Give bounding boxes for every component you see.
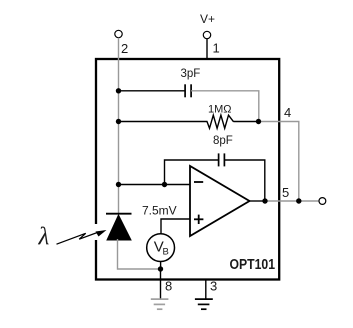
svg-text:7.5mV: 7.5mV [142, 204, 177, 218]
svg-text:1: 1 [213, 41, 220, 56]
svg-text:3pF: 3pF [181, 68, 201, 80]
terminal pin 5 output [319, 198, 326, 205]
svg-text:1MΩ: 1MΩ [208, 104, 232, 116]
svg-text:B: B [163, 247, 169, 258]
voltage source VB [147, 234, 175, 262]
node junction 1MΩ/3pF right [256, 119, 261, 124]
wire inverting input row [119, 184, 191, 186]
svg-text:OPT101: OPT101 [230, 257, 276, 273]
wire 8pF to output [224, 160, 264, 201]
wire pin 8 lead [160, 269, 162, 299]
resistor R1 1MΩ [207, 115, 234, 128]
ground pin 3 [195, 299, 213, 309]
wire pin 3 lead [205, 280, 207, 299]
op-amp A1 [190, 166, 250, 236]
wire 1MΩ to junction [234, 121, 259, 123]
svg-text:4: 4 [284, 105, 291, 120]
node junction 3pF/pin2 [116, 88, 121, 93]
svg-text:λ: λ [38, 224, 50, 251]
wire pin 1 lead [206, 39, 208, 60]
wire op-amp output [250, 200, 266, 202]
wire noninverting input [161, 219, 190, 233]
wire photodiode bottom (gray) [118, 239, 161, 269]
wire pin 4 lead (gray) [259, 122, 299, 202]
svg-text:2: 2 [121, 41, 128, 56]
svg-text:3: 3 [210, 279, 217, 294]
node junction inverting input [116, 182, 121, 187]
node junction 8pF stub [162, 182, 167, 187]
terminal pin 1 [203, 31, 210, 38]
wire 1MΩ row left [119, 121, 208, 123]
node junction 1MΩ/pin2 [116, 119, 121, 124]
gap in outline where light arrow crosses [94, 224, 99, 240]
ground pin 8 (gray) [151, 299, 169, 309]
IC outline OPT101 [96, 59, 279, 280]
svg-text:8: 8 [165, 279, 172, 294]
node junction pin4/pin5 [296, 198, 301, 203]
node junction output/feedback [262, 198, 267, 203]
wire pin 2 lead (gray, down to photodiode) [118, 38, 120, 213]
wire 8pF stub [165, 160, 219, 185]
capacitor C2 8pF [219, 153, 225, 166]
terminal pin 2 [115, 30, 122, 37]
light arrow [57, 230, 107, 244]
photodiode D1 [106, 214, 132, 240]
wire VB bottom stub [160, 262, 162, 270]
wire 3pF row right (gray) [191, 91, 259, 122]
wire pin 5 lead (gray) [265, 200, 319, 202]
capacitor C1 3pF [185, 84, 191, 97]
node junction VB/pin8 [158, 266, 163, 271]
svg-text:8pF: 8pF [213, 135, 233, 147]
wire 3pF row left [119, 90, 186, 92]
svg-text:V+: V+ [200, 12, 215, 26]
svg-text:5: 5 [282, 185, 289, 200]
